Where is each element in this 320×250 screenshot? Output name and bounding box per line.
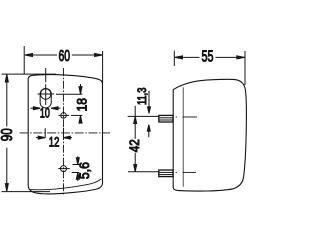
svg-text:5,6: 5,6 [77,162,92,179]
svg-text:10: 10 [40,106,50,121]
svg-text:18: 18 [74,98,89,112]
svg-text:12: 12 [49,134,60,149]
svg-text:55: 55 [202,49,214,66]
svg-text:90: 90 [0,128,16,141]
svg-text:42: 42 [127,139,142,152]
svg-text:60: 60 [59,48,71,65]
svg-text:11,3: 11,3 [137,88,149,106]
